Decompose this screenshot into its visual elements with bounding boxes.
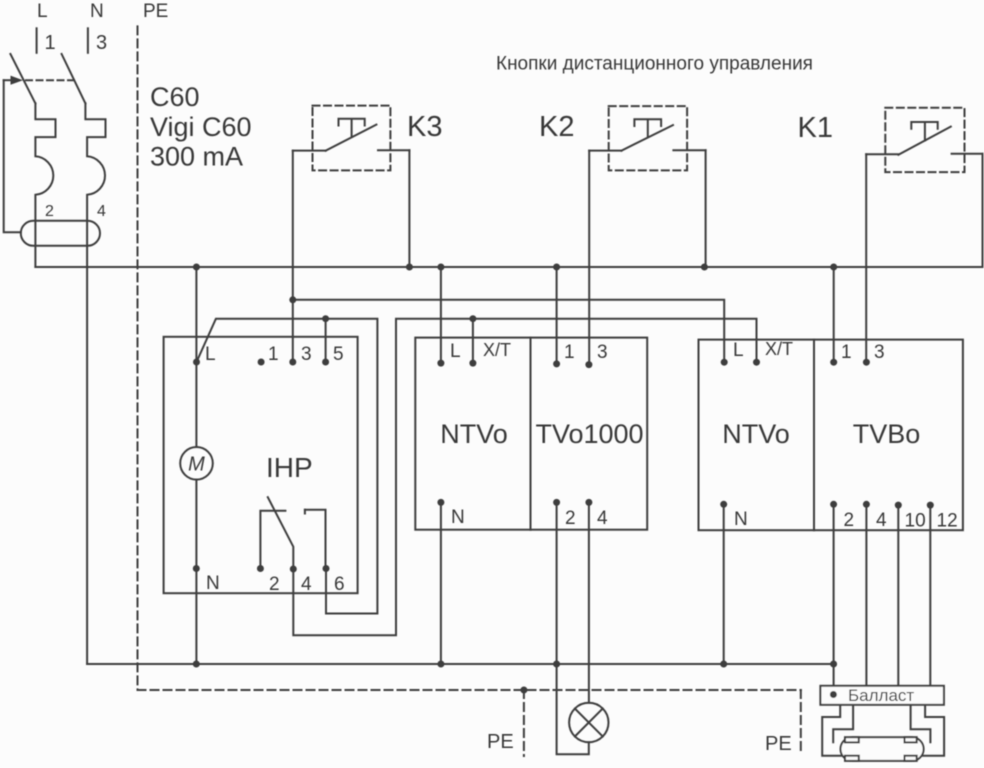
svg-text:10: 10	[905, 511, 926, 532]
svg-text:N: N	[90, 1, 104, 22]
svg-text:3: 3	[597, 342, 608, 363]
svg-text:2: 2	[269, 574, 280, 595]
PE node dot	[520, 687, 527, 694]
svg-text:N: N	[451, 507, 465, 528]
left NTVo X/T label	[483, 340, 511, 360]
left modules terminal dots	[437, 360, 592, 506]
wire right NTVo N down	[723, 504, 725, 664]
TVBo label	[853, 419, 921, 449]
svg-text:N: N	[206, 573, 220, 594]
svg-text:K2: K2	[539, 111, 574, 143]
wire K3 left down to IHP terminal 3	[292, 151, 294, 362]
ballast box	[820, 686, 944, 705]
motor M symbol	[180, 447, 213, 480]
svg-text:3: 3	[96, 32, 107, 54]
svg-text:12: 12	[937, 511, 958, 532]
node PE supply label	[143, 1, 168, 22]
svg-text:Балласт: Балласт	[848, 686, 914, 705]
svg-text:K3: K3	[407, 111, 442, 143]
wire bus to TVBo terminal 1	[833, 267, 835, 362]
IHP box	[164, 337, 358, 593]
wire TVo1000 terminal 2 down to lamp return	[557, 502, 589, 754]
PE stub left dashed	[523, 690, 525, 756]
breaker pole L body	[35, 103, 55, 267]
svg-text:2: 2	[45, 203, 54, 220]
svg-text:4: 4	[876, 510, 887, 531]
NTVo left label	[440, 419, 508, 449]
tube pin pads	[845, 737, 917, 761]
svg-text:NTVo: NTVo	[722, 419, 790, 449]
svg-text:4: 4	[97, 203, 106, 220]
svg-text:N: N	[734, 509, 748, 530]
svg-text:L: L	[733, 340, 744, 361]
svg-text:TVo1000: TVo1000	[535, 419, 643, 449]
wire IHP terminal 4 loop and line B to X/T	[293, 319, 756, 636]
breaker terminal 2 label	[45, 203, 54, 220]
svg-text:4: 4	[301, 574, 312, 595]
right NTVo X/T label	[765, 339, 793, 359]
breaker C60 Vigi pole N blade	[62, 54, 86, 103]
svg-text:2: 2	[844, 510, 855, 531]
svg-text:PE: PE	[143, 1, 168, 22]
svg-text:Кнопки дистанционного управлен: Кнопки дистанционного управления	[496, 54, 813, 75]
wire bus to IHP L and motor column	[195, 267, 197, 664]
svg-text:Vigi C60: Vigi C60	[150, 112, 252, 142]
node line B dots	[322, 315, 476, 322]
wire K1 right to bus	[982, 154, 984, 267]
breaker trip linkage dashed with arrow	[4, 76, 75, 85]
svg-text:4: 4	[597, 508, 608, 529]
breaker nameplate text C60 Vigi C60 300 mA	[150, 82, 252, 172]
wire TVo1000 terminal 4 to lamp	[588, 502, 590, 702]
wire TVBo terminal 10 to ballast	[897, 505, 899, 686]
fluorescent tube	[841, 737, 924, 761]
svg-text:5: 5	[333, 344, 344, 365]
wire line A to right NTVo L	[293, 300, 724, 362]
PE label left	[487, 731, 514, 753]
breaker pole N body	[85, 103, 105, 664]
wire left NTVo X/T	[472, 319, 474, 363]
ballast terminal dot	[830, 691, 837, 698]
wire left NTVo N down	[440, 502, 442, 664]
node N supply label	[90, 1, 104, 22]
node L supply label	[37, 1, 48, 22]
svg-text:1: 1	[564, 342, 575, 363]
svg-text:K1: K1	[798, 112, 833, 144]
Vigi trip wire	[4, 80, 21, 232]
IHP switch contact	[260, 497, 325, 569]
wire K1 left down to TVBo terminal 3	[865, 154, 867, 362]
breaker QF terminal 1 tick	[37, 28, 56, 54]
wire K2 left down to TVo1000 terminal 3	[588, 151, 590, 365]
PE label right	[765, 733, 792, 755]
svg-text:NTVo: NTVo	[440, 419, 508, 449]
svg-text:X/T: X/T	[483, 340, 511, 360]
svg-text:C60: C60	[150, 82, 200, 112]
svg-text:3: 3	[874, 342, 885, 363]
bus junction dots	[193, 264, 837, 271]
svg-text:L: L	[37, 1, 48, 22]
L bus wire	[35, 266, 982, 268]
breaker C60 Vigi pole L blade	[10, 54, 35, 103]
TVo1000 label	[535, 419, 643, 449]
wire bus to left NTVo L	[440, 267, 442, 363]
PE rail dashed	[138, 26, 801, 754]
svg-text:2: 2	[565, 508, 576, 529]
IHP terminal dots	[193, 359, 330, 573]
svg-text:X/T: X/T	[765, 339, 793, 359]
svg-text:1: 1	[268, 344, 279, 365]
wire TVBo terminal 2 down to ballast	[833, 504, 835, 693]
svg-text:PE: PE	[765, 733, 792, 755]
right modules terminal dots	[720, 359, 934, 509]
lamp holder step right	[911, 705, 931, 742]
lamp symbol	[569, 703, 608, 742]
lamp holder bracket	[822, 705, 944, 756]
svg-text:1: 1	[841, 342, 852, 363]
NTVo right label	[722, 419, 790, 449]
wire IHP terminal 5	[325, 319, 327, 362]
svg-text:1: 1	[45, 32, 56, 54]
breaker QF terminal 3 tick	[88, 28, 107, 54]
left modules box NTVo TVo1000	[415, 338, 647, 530]
left modules terminal labels	[450, 341, 608, 529]
svg-text:3: 3	[301, 344, 312, 365]
svg-text:L: L	[205, 344, 216, 365]
svg-text:6: 6	[334, 574, 345, 595]
svg-text:IHP: IHP	[266, 452, 313, 483]
svg-text:PE: PE	[487, 731, 514, 753]
N return wire	[87, 663, 834, 665]
svg-text:TVBo: TVBo	[853, 419, 921, 449]
svg-text:M: M	[188, 454, 205, 476]
wire bus to TVo1000 terminal 1	[556, 267, 558, 364]
lamp holder step left	[833, 705, 853, 742]
wire TVBo terminal 12 to ballast	[929, 505, 931, 686]
heading Кнопки дистанционного управления	[496, 54, 813, 75]
button K1	[798, 108, 983, 172]
svg-text:300 mA: 300 mA	[150, 142, 243, 172]
wire K2 right to bus	[705, 150, 707, 267]
svg-text:L: L	[450, 341, 461, 362]
IHP terminal labels	[205, 344, 345, 595]
button K3	[293, 106, 443, 171]
N line junction dots	[193, 661, 837, 668]
breaker terminal 4 label	[97, 203, 106, 220]
IHP label	[266, 452, 313, 483]
right modules terminal labels	[733, 340, 958, 532]
wire K3 right to bus	[408, 150, 410, 267]
wire TVBo terminal 4 to ballast	[865, 504, 867, 686]
right modules box NTVo TVBo	[699, 340, 963, 531]
node line A branch dot	[289, 296, 296, 303]
wire IHP L loop to terminals 5 and 6	[197, 319, 378, 614]
Vigi differential toroid oval	[21, 221, 100, 246]
button K2	[539, 106, 706, 170]
